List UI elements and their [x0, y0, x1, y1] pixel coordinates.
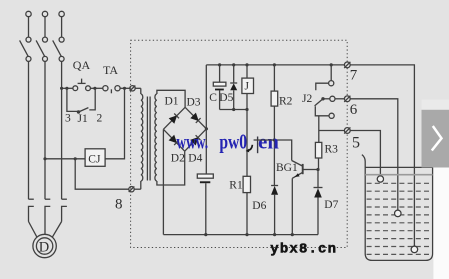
svg-text:pw0: pw0 — [219, 132, 247, 155]
knife switch QA pole3 blade — [53, 40, 62, 56]
pushbutton QA contact right circle — [86, 86, 91, 91]
transistor BG1 collector diagonal — [292, 161, 303, 167]
diode D1 triangle — [169, 115, 178, 124]
wire filter cap to minus bus — [205, 183, 207, 234]
svg-text:6: 6 — [350, 102, 358, 118]
wire R3 to base node — [318, 158, 320, 170]
contactor CJ main contact pole2 upper foot — [45, 198, 50, 200]
wire J2 middle to terminal 6 — [335, 98, 345, 100]
transistor BG1 emitter arrow — [295, 173, 300, 177]
transformer primary lead bottom — [140, 181, 142, 189]
bridge diamond edge D2 — [163, 129, 184, 151]
wire emitter to bus — [291, 178, 293, 234]
wire junction row — [220, 109, 248, 111]
resistor R1 box — [243, 176, 250, 192]
junction bottom bus R1 — [245, 233, 248, 236]
motor D outer circle — [33, 234, 56, 257]
wire secondary bottom to bridge — [157, 151, 185, 185]
svg-text:www.: www. — [176, 130, 208, 154]
junction bridge plus to rail — [205, 127, 208, 130]
terminal circle L2 — [42, 11, 47, 16]
svg-text:R2: R2 — [279, 96, 293, 108]
svg-text:ybx8.cn: ybx8.cn — [270, 241, 337, 257]
enclosure dashed border — [131, 40, 348, 247]
svg-text:D3: D3 — [187, 97, 201, 109]
electrode holder bar — [365, 174, 432, 176]
contact J2 middle circle — [330, 96, 335, 101]
svg-text:D4: D4 — [188, 153, 202, 165]
carousel button — [422, 110, 449, 168]
transformer primary lead top — [140, 88, 142, 94]
junction node L2 tap — [43, 157, 46, 160]
contact J2 lower circle — [329, 113, 334, 118]
wire top plus bus — [206, 64, 344, 66]
diode D4 bar — [196, 135, 201, 140]
diode D2 triangle — [169, 135, 178, 144]
electrode 6 tip — [395, 210, 401, 216]
diode D5 bar — [230, 82, 237, 84]
water dash row 6 — [367, 222, 432, 224]
terminal TA-in — [130, 86, 135, 91]
junction top bus R2 — [273, 63, 276, 66]
wire R1 to bus — [246, 193, 248, 235]
svg-text:D7: D7 — [324, 199, 338, 211]
svg-text:D1: D1 — [165, 96, 179, 108]
watermark j stem — [257, 137, 259, 154]
wire J2 lower elbow — [315, 106, 329, 116]
svg-text:D5: D5 — [219, 92, 233, 104]
light band above button — [422, 100, 449, 110]
resistor R3 box — [315, 142, 321, 158]
wire J column top — [246, 65, 248, 78]
watermark blue part www. — [176, 129, 279, 154]
transistor BG1 base bar — [302, 164, 304, 174]
junction bottom bus cap — [204, 233, 207, 236]
svg-text:QA: QA — [73, 58, 91, 72]
knife switch QA pole2 blade — [36, 40, 45, 56]
wire CJ coil right riser — [105, 88, 124, 159]
svg-text:J: J — [245, 81, 250, 93]
wire phase L2 column — [44, 61, 46, 199]
electrode 6 tip redraw — [395, 210, 401, 216]
watermark j curl — [248, 145, 253, 151]
wire node5 to R3 — [318, 131, 320, 143]
wire J2 pivot link — [323, 98, 330, 100]
electrode 5 tip redraw — [377, 176, 383, 182]
svg-text:R3: R3 — [325, 144, 339, 156]
pushbutton QA stem — [81, 79, 83, 84]
contact J1 pivot dot — [77, 110, 80, 113]
transformer core — [146, 97, 148, 181]
wire C column top — [219, 65, 221, 82]
wire motor lead left — [29, 222, 38, 239]
electrode 5 tip — [377, 176, 383, 182]
pushbutton QA bridge bar — [78, 82, 86, 84]
svg-text:7: 7 — [350, 68, 358, 84]
knife switch QA pole2 lower contact — [43, 56, 48, 61]
contact J2 pivot dot — [321, 97, 324, 100]
diode D7 triangle — [314, 188, 322, 197]
wire electrode 7 — [350, 65, 414, 246]
contact J1 blade — [79, 108, 89, 112]
svg-text:8: 8 — [115, 197, 123, 213]
wire D5 column top — [233, 65, 235, 83]
junction top bus D5 — [232, 63, 235, 66]
svg-text:BG1: BG1 — [276, 162, 298, 174]
wire phase L1 top stem — [28, 17, 30, 37]
wire terminal 8 to transformer — [134, 188, 141, 190]
wire D6 to bus — [274, 195, 276, 235]
junction bottom bus D6 — [273, 233, 276, 236]
wire electrode 5 — [350, 131, 380, 176]
redraw electrode tips over dashes — [377, 176, 417, 253]
diode D7 bar — [314, 187, 323, 189]
wire secondary top to bridge — [157, 90, 185, 107]
water dash row 4 — [367, 206, 432, 208]
svg-text:R1: R1 — [229, 180, 243, 192]
wire phase L3 top stem — [61, 17, 63, 37]
terminal 7 — [344, 62, 350, 68]
water dash row 9 — [367, 246, 432, 248]
tank outline — [362, 155, 436, 261]
diode D6 bar — [271, 185, 278, 187]
diode D2 bar — [174, 140, 179, 145]
contact J2 upper circle — [329, 81, 334, 86]
carousel chevron — [432, 126, 442, 151]
knife switch QA pole1 upper contact — [26, 37, 31, 42]
water surface line — [365, 166, 432, 168]
terminal circle L1 — [26, 11, 31, 16]
terminal 6 — [344, 96, 350, 102]
electrode 7 tip — [411, 246, 417, 252]
contact J2 blade — [315, 99, 323, 106]
wire phase L1 column — [28, 61, 30, 199]
capacitor filter top plate — [197, 174, 213, 178]
connector TA right circle — [115, 86, 120, 91]
wire D7 to bus — [317, 198, 319, 235]
diode D5 triangle — [230, 83, 237, 90]
contactor CJ main contact pole1 upper foot — [29, 198, 34, 200]
wire terminal to transformer primary — [135, 87, 141, 89]
wire TA to terminal — [120, 87, 130, 89]
diode D4 triangle — [190, 137, 199, 146]
wire strike through en — [254, 139, 275, 141]
wire base node to D7 — [317, 170, 319, 189]
contactor CJ main contact pole1 lower — [29, 206, 34, 221]
svg-text:5: 5 — [352, 135, 360, 152]
wire C column bottom — [219, 90, 221, 109]
diode D1 bar — [174, 114, 179, 119]
knife switch QA pole1 lower contact — [26, 56, 31, 61]
wire bus to J2 upper — [330, 65, 332, 81]
diode D6 triangle — [271, 186, 278, 195]
wire L2 tap to CJ coil — [45, 158, 85, 160]
wire node5 to terminal 5 — [319, 130, 345, 132]
knife switch QA pole3 lower contact — [59, 56, 64, 61]
junction top bus J — [245, 63, 248, 66]
svg-text:D: D — [39, 240, 49, 256]
water dash row 8 — [367, 238, 432, 240]
wire phase L3 column — [61, 61, 63, 88]
contactor CJ main contact pole2 lower — [45, 206, 50, 234]
terminal 5 — [344, 128, 350, 134]
junction node CJ riser — [123, 87, 126, 90]
capacitor C bottom plate — [215, 89, 224, 91]
wire node 8 return — [75, 159, 129, 189]
white sidebar — [433, 110, 449, 279]
capacitor C top plate — [213, 82, 226, 86]
water dash row 10 — [367, 253, 432, 255]
transistor BG1 emitter diagonal — [292, 172, 302, 178]
wire J2 lower to node5 — [318, 116, 320, 131]
resistor R2 box — [271, 91, 278, 106]
water dashed shading — [367, 183, 432, 254]
relay coil J box — [242, 78, 254, 93]
contactor CJ main contact pole3 lower — [62, 206, 67, 221]
wire plus rail vertical — [205, 65, 207, 174]
transformer secondary winding — [155, 94, 157, 181]
wire R2 column top — [273, 65, 275, 91]
bridge diamond edge D4 — [185, 129, 207, 151]
connector TA left circle — [103, 86, 108, 91]
capacitor filter bottom plate — [200, 181, 210, 183]
svg-text:J1: J1 — [78, 113, 88, 125]
wire D5 column bottom — [233, 90, 235, 109]
water dash row 5 — [367, 214, 432, 216]
bridge diamond edge D1 — [163, 107, 185, 129]
water dash row 7 — [367, 230, 432, 232]
diode D3 bar — [196, 118, 201, 123]
junction base node — [316, 168, 319, 171]
contactor coil CJ box — [85, 149, 105, 167]
wire bottom minus bus — [163, 234, 318, 236]
water dash row 2 — [367, 190, 432, 192]
wire J2 upper elbow — [316, 83, 329, 90]
wire collector elbow — [274, 140, 291, 161]
svg-text:J2: J2 — [302, 93, 312, 105]
electrode 7 tip redraw — [411, 246, 417, 252]
bridge diamond edge D3 — [185, 107, 206, 129]
wire to R1 — [246, 110, 248, 177]
wire phase L2 top stem — [44, 17, 46, 37]
wire R2 to collector node — [273, 106, 275, 185]
wire J1 bypass left leg — [67, 88, 78, 111]
wire J1 bypass right leg — [89, 88, 95, 110]
junction row J — [245, 108, 248, 111]
svg-text:2: 2 — [97, 113, 103, 125]
transformer primary winding — [141, 94, 143, 181]
junction row D5 — [232, 108, 235, 111]
terminal circle L3 — [59, 11, 64, 16]
wire L3 tap to QA button — [62, 87, 73, 89]
junction node CJ-8 branch — [74, 157, 77, 160]
connector TA tick — [110, 89, 112, 93]
wire bridge minus riser — [162, 129, 164, 234]
junction collector node — [273, 138, 276, 141]
knife switch QA pole2 upper contact — [43, 37, 48, 42]
knife switch QA pole1 blade — [20, 40, 29, 56]
wire base to R3 node — [304, 169, 319, 171]
terminal 8 — [129, 187, 134, 192]
knife switch QA pole3 upper contact — [59, 37, 64, 42]
motor D inner circle — [36, 238, 52, 254]
junction bottom bus emitter — [291, 233, 294, 236]
junction node J1 branch right — [93, 87, 96, 90]
wire QA to TA — [90, 87, 102, 89]
junction node L3 tap — [60, 87, 63, 90]
junction top bus C — [218, 63, 221, 66]
diode D3 triangle — [190, 113, 199, 122]
svg-text:en: en — [258, 129, 279, 153]
svg-text:TA: TA — [103, 63, 118, 77]
junction node J1 branch left — [65, 87, 68, 90]
svg-text:C: C — [209, 92, 217, 104]
contactor CJ main contact pole3 upper foot — [62, 198, 67, 200]
svg-text:CJ: CJ — [88, 154, 101, 166]
wire phase L3 column lower — [61, 88, 63, 199]
svg-text:D2: D2 — [171, 153, 185, 165]
water dash row 3 — [367, 198, 432, 200]
svg-text:3: 3 — [65, 113, 71, 125]
svg-text:D6: D6 — [252, 200, 266, 212]
pushbutton QA contact left circle — [73, 86, 78, 91]
water dash row 1 — [367, 182, 432, 184]
wire motor lead right — [52, 222, 62, 239]
wire electrode 6 — [350, 99, 398, 210]
wire J column bottom — [246, 94, 248, 110]
junction top bus J2 — [330, 63, 333, 66]
